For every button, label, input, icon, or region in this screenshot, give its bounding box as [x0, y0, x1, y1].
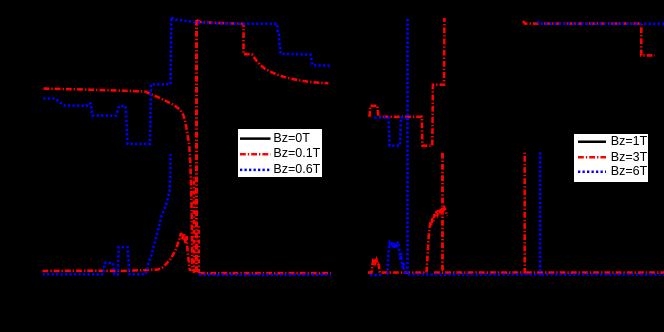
right panel: red Bz=3T nu=2 plateau top right with step: [523, 21, 655, 55]
left panel: blue Rxx baseline right of divergence: [199, 273, 331, 276]
right panel: blue Rxx baseline mid and rise at x=540: [408, 152, 540, 275]
right panel: red Bz=3T Rxy steps across CNP: [370, 18, 445, 146]
legend1 red dashdot sample: [240, 153, 271, 156]
legend1 black solid sample: [240, 137, 271, 140]
legend2 red dashdot sample: [578, 156, 606, 159]
right panel: blue Bz=6T Rxy steps left of CNP: [375, 118, 408, 146]
left panel: red Bz=0.1T Rxy left branch: [44, 89, 193, 271]
left panel: red Rxx baseline right of divergence: [199, 272, 331, 275]
right panel: red Bz=3T Rxx baseline + CNP peak: [368, 208, 447, 273]
legend box 2: [573, 133, 649, 182]
left panel: blue Bz=0.6T Rxy left branch steps: [43, 18, 171, 145]
legend2 black solid sample: [578, 140, 606, 143]
left panel: blue Bz=0.6T Rxy right branch steps: [171, 18, 331, 66]
right panel: red Rxx baseline right and rise at x=524.7: [434, 153, 525, 273]
legend box 1: [237, 128, 322, 178]
right panel: blue Rxx double bump near CNP: [387, 242, 405, 275]
left panel: blue Rxx baseline left with bumps: [43, 154, 171, 274]
right panel: blue nu=2 plateau top right: [537, 22, 664, 24]
left panel: red Rxx spike companion at CNP: [194, 175, 199, 273]
right panel: blue Rxx baseline left: [370, 274, 384, 277]
right panel: red Bz=3T Rxx rise vertical at CNP: [441, 152, 444, 271]
left panel: red Bz=0.1T Rxx baseline left: [43, 233, 191, 271]
left panel: red Bz=0.1T Rxy right branch steps: [197, 20, 329, 83]
legend2 blue dotted sample: [578, 171, 606, 174]
right panel: red Rxx baseline far right: [526, 271, 664, 274]
right panel: blue Bz=6T divergence vertical: [406, 19, 409, 274]
left panel: red Bz=0.1T divergence vertical: [195, 20, 198, 272]
right panel: blue Rxx baseline far right: [542, 273, 664, 276]
legend1 blue dotted sample: [240, 169, 271, 172]
